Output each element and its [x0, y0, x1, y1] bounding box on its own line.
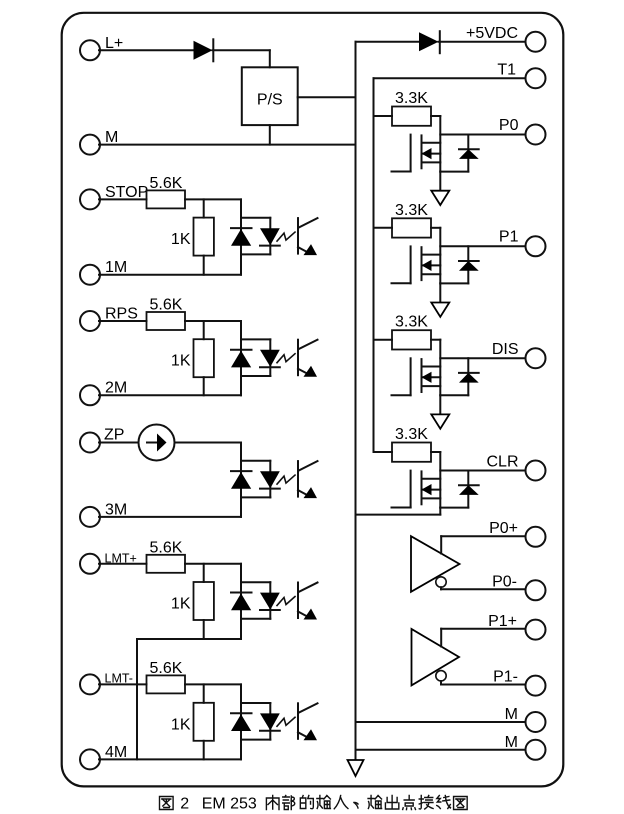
svg-text:P1: P1 [499, 229, 519, 246]
svg-text:3M: 3M [105, 501, 127, 518]
svg-text:3.3K: 3.3K [395, 90, 428, 107]
svg-text:M: M [105, 129, 118, 146]
svg-text:3.3K: 3.3K [395, 426, 428, 443]
svg-text:P1-: P1- [493, 669, 518, 686]
svg-text:T1: T1 [497, 62, 516, 79]
svg-text:M: M [505, 706, 518, 723]
svg-text:M: M [505, 734, 518, 751]
svg-text:DIS: DIS [492, 341, 519, 358]
svg-text:1K: 1K [171, 353, 191, 370]
svg-text:5.6K: 5.6K [150, 539, 183, 556]
svg-text:STOP: STOP [105, 184, 148, 201]
svg-text:3.3K: 3.3K [395, 314, 428, 331]
svg-text:L+: L+ [105, 35, 123, 52]
svg-text:CLR: CLR [486, 453, 518, 470]
svg-text:P1+: P1+ [488, 613, 517, 630]
svg-text:P/S: P/S [257, 92, 283, 109]
svg-text:P0-: P0- [492, 574, 517, 591]
svg-text:+5VDC: +5VDC [466, 25, 518, 42]
svg-text:ZP: ZP [104, 427, 124, 444]
svg-text:P0: P0 [499, 117, 519, 134]
svg-text:RPS: RPS [105, 305, 138, 322]
svg-text:5.6K: 5.6K [150, 660, 183, 677]
svg-text:2M: 2M [105, 380, 127, 397]
svg-text:1M: 1M [105, 259, 127, 276]
svg-text:P0+: P0+ [489, 520, 518, 537]
svg-text:EM 253: EM 253 [202, 796, 257, 813]
svg-text:3.3K: 3.3K [395, 202, 428, 219]
svg-text:4M: 4M [105, 744, 127, 761]
svg-text:5.6K: 5.6K [150, 175, 183, 192]
svg-text:1K: 1K [171, 716, 191, 733]
svg-text:5.6K: 5.6K [150, 297, 183, 314]
svg-text:1K: 1K [171, 596, 191, 613]
svg-text:1K: 1K [171, 231, 191, 248]
svg-text:2: 2 [180, 796, 189, 813]
